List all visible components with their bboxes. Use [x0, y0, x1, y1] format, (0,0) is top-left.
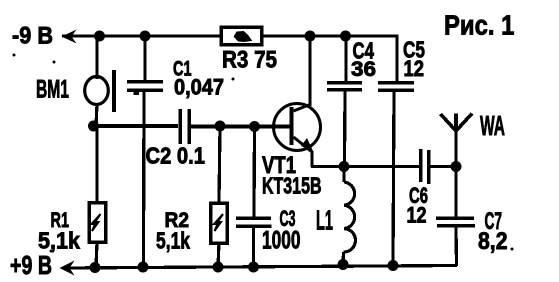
svg-text:12: 12: [404, 56, 425, 81]
svg-text:+9 В: +9 В: [10, 250, 52, 280]
svg-text:L1: L1: [316, 205, 333, 236]
svg-text:5,1k: 5,1k: [38, 228, 80, 254]
svg-text:12: 12: [407, 203, 427, 228]
svg-text:8,2: 8,2: [478, 228, 508, 255]
svg-text:36: 36: [351, 57, 376, 81]
svg-text:C2 0.1: C2 0.1: [146, 143, 206, 169]
svg-text:WA: WA: [480, 110, 505, 141]
svg-text:1000: 1000: [262, 227, 301, 255]
svg-text:Рис. 1: Рис. 1: [444, 10, 514, 41]
svg-text:R3 75: R3 75: [222, 47, 277, 74]
svg-text:-9 В: -9 В: [12, 23, 53, 50]
svg-text:KT315B: KT315B: [262, 173, 322, 199]
svg-text:0,047: 0,047: [174, 75, 224, 100]
svg-text:BM1: BM1: [36, 76, 69, 104]
svg-text:5,1k: 5,1k: [156, 228, 190, 254]
